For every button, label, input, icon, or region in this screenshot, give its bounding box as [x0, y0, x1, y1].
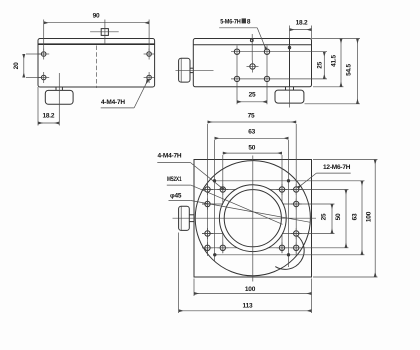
svg-text:90: 90 [93, 13, 100, 20]
side view foot shaft ticks [286, 87, 294, 90]
bottom view left knob [179, 206, 190, 230]
bottom view hole column line C [281, 155, 283, 253]
bottom view hole row line c [202, 233, 335, 235]
bottom view thread circle M52 [219, 185, 286, 252]
svg-text:63: 63 [352, 213, 359, 220]
bottom view label phi45 [169, 192, 311, 222]
front view mounting hole top-right [144, 49, 155, 60]
svg-text:18.2: 18.2 [42, 113, 54, 120]
side view label 5-M6-7H deep 8 [219, 18, 266, 49]
side view foot centerline [288, 87, 290, 108]
svg-text:5-M6-7H: 5-M6-7H [220, 19, 241, 26]
front view dimension 20 [13, 54, 41, 78]
svg-text:100: 100 [366, 211, 373, 222]
bottom view M6 hole col-D row-c [291, 228, 302, 239]
side view hole pattern bottom-left [234, 76, 239, 81]
side view hole pattern bottom-right [264, 76, 269, 81]
front view label 4-M4-7H [101, 80, 148, 108]
svg-text:25: 25 [316, 61, 323, 68]
front view mounting hole bottom-right [144, 72, 155, 83]
side view dimension 25 (bottom) [237, 92, 267, 102]
side view small pin circle on interior line [288, 46, 290, 48]
bottom view M4 hole dot bottom-right [287, 253, 290, 256]
front view bottom-left knob [45, 90, 73, 104]
side view body outline [193, 39, 311, 87]
side view dimension 41.5 [313, 39, 344, 87]
front view knob centerline [58, 73, 60, 126]
svg-text:25: 25 [321, 213, 328, 220]
side view interior edge line [289, 39, 291, 87]
bottom view hole row line a [202, 189, 349, 191]
bottom view M6 hole col-A row-a [202, 184, 213, 195]
bottom view M6 hole col-A row-d [202, 242, 213, 253]
bottom view knob shaft [189, 215, 194, 222]
svg-text:41.5: 41.5 [330, 54, 337, 66]
bottom view label M52X1 [167, 176, 283, 224]
side view hole pattern top-right [264, 49, 269, 54]
bottom view M4 hole dot top-left [213, 179, 216, 182]
front view dimension 18.2 [38, 113, 59, 123]
front view dimension 90 [44, 13, 149, 51]
front view mounting hole top-left [38, 49, 49, 60]
bottom view vertical centerline [252, 156, 254, 282]
front view knob shaft ticks [56, 87, 62, 90]
svg-text:50: 50 [248, 145, 255, 152]
front view vertical centerline (dashed) [95, 46, 97, 89]
bottom view M6 hole col-D row-d [291, 242, 302, 253]
side view bottom foot knob [275, 90, 304, 103]
front view top set-screw square [90, 20, 119, 45]
bottom view hole column line 63-left [214, 140, 216, 261]
side view hole pattern top-left [234, 49, 239, 54]
bottom view label 12-M6-7H [298, 164, 351, 188]
bottom view dimension 75 (top) [208, 113, 297, 122]
bottom view dimension 63 (right) [352, 181, 363, 255]
side view dimension 18.2 [290, 19, 312, 38]
bottom view hole column line 63-right [288, 140, 290, 267]
side view hole pattern center [247, 61, 259, 73]
svg-text:100: 100 [245, 286, 256, 293]
bottom view hole row line d [202, 247, 349, 249]
bottom view hole column line A [207, 124, 209, 256]
bottom view dimension 25 (right) [321, 204, 333, 234]
bottom view dimension 100 (right) [313, 160, 378, 278]
bottom view M6 hole col-C row-d [277, 242, 288, 253]
side view top set-screw circle [250, 34, 253, 61]
svg-text:113: 113 [243, 302, 253, 309]
bottom view M6 hole col-A row-c [202, 228, 213, 239]
side view dimension 54.5 [305, 39, 361, 104]
svg-text:54.5: 54.5 [345, 63, 352, 75]
side view knob shaft [190, 68, 193, 72]
side view top plate line [193, 44, 311, 46]
svg-text:63: 63 [248, 129, 255, 136]
svg-text:M52X1: M52X1 [167, 176, 182, 183]
svg-text:8: 8 [247, 19, 251, 26]
bottom view label 4-M4-7H [157, 153, 223, 190]
bottom view M6 hole col-B row-d [217, 242, 228, 253]
svg-text:12-M6-7H: 12-M6-7H [323, 164, 351, 171]
bottom view worm housing boss arc [275, 236, 304, 270]
bottom view M6 hole col-D row-b [291, 199, 302, 210]
svg-text:25: 25 [249, 92, 256, 99]
front view mounting hole bottom-left [38, 72, 49, 83]
bottom view dimension 113 (bottom) [179, 233, 312, 314]
side view hole column line left [236, 46, 238, 105]
side view left knob [179, 58, 190, 82]
svg-text:50: 50 [335, 213, 342, 220]
svg-text:75: 75 [248, 113, 255, 120]
svg-text:4-M4-7H: 4-M4-7H [101, 99, 125, 106]
front view body outline [38, 39, 155, 88]
bottom view square plate [194, 160, 312, 278]
side view dimension 25 (right) [316, 52, 324, 79]
bottom view M6 hole col-A row-b [202, 199, 213, 210]
side view hole row line top [231, 51, 327, 53]
svg-text:18.2: 18.2 [296, 19, 308, 26]
bottom view dimension 50 (top) [223, 145, 282, 154]
bottom view M6 hole col-C row-a [277, 184, 288, 195]
bottom view hole column line B [222, 155, 224, 253]
svg-text:20: 20 [13, 62, 20, 69]
bottom view hole row line b [202, 203, 335, 205]
side view hole row line bottom [231, 78, 327, 80]
bottom view dimension 63 (top) [215, 129, 289, 139]
bottom view dimension 100 (bottom) [194, 279, 312, 314]
bottom view horizontal centerline [173, 217, 317, 219]
bottom view center hole circle phi45 [224, 190, 281, 247]
bottom view main circular body [195, 161, 310, 276]
bottom view dot row line top [213, 180, 365, 182]
svg-text:φ45: φ45 [170, 192, 182, 199]
bottom view hole column line D [295, 124, 297, 256]
bottom view M4 hole dot bottom-left [213, 253, 216, 256]
side view hole column line right [266, 46, 268, 105]
bottom view thread circle interior mask [220, 185, 286, 251]
bottom view M4 hole dot top-right [287, 179, 290, 182]
front view top plate bottom edge (thick) [38, 43, 155, 45]
front view left edge extension for 18.2 [37, 87, 39, 126]
bottom view dimension 50 (right) [335, 190, 346, 248]
bottom view M6 hole col-D row-a [291, 184, 302, 195]
bottom view dot row line bottom [213, 254, 365, 256]
bottom view M6 hole col-B row-a [217, 184, 228, 195]
side view knob centerline [176, 69, 214, 71]
svg-text:4-M4-7H: 4-M4-7H [158, 153, 182, 160]
